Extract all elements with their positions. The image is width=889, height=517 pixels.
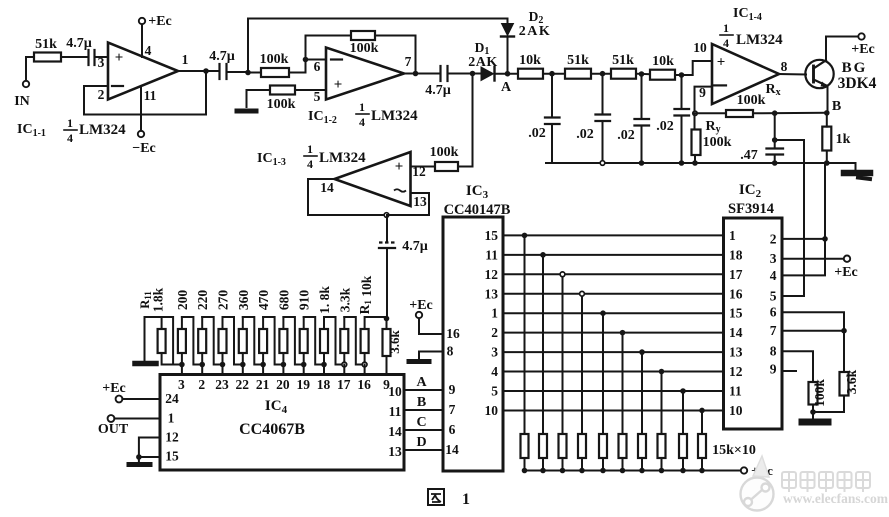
svg-text:11: 11: [389, 404, 402, 419]
label IC3: [466, 183, 489, 201]
IC2 pin 6 label: [770, 305, 777, 320]
wire resistor bottom stub: [323, 353, 325, 365]
resistor 100k (IC1-2 feedback): [350, 31, 379, 56]
open node on rail: [600, 161, 605, 166]
svg-text:3.6k: 3.6k: [387, 329, 402, 353]
wire 15k to rail 9: [682, 458, 684, 471]
wire to IC1-4 pin 10: [675, 61, 712, 75]
ground (IC4 pins 12/15): [129, 457, 150, 465]
power +Ec (IC2 pin 3): [834, 256, 858, 280]
resistor Rx 100k (feedback): [726, 93, 766, 117]
svg-text:13: 13: [485, 286, 499, 301]
wire D (IC4 pin 13 to IC3 pin 14): [404, 449, 443, 451]
node junction chain 2: [199, 362, 205, 368]
wire drop to 15k resistor 2: [542, 255, 544, 434]
IC2 pin 13 label: [729, 345, 743, 360]
wire: [543, 73, 565, 75]
capacitor 4.7u (input coupling): [66, 36, 94, 65]
svg-text:6: 6: [770, 305, 777, 320]
pin 1 label: [168, 411, 175, 426]
svg-text:1k: 1k: [836, 132, 851, 147]
net label B: [417, 395, 426, 410]
svg-text:5: 5: [314, 89, 321, 104]
wire drop to 15k resistor 6: [622, 333, 624, 434]
wire Ry top: [694, 113, 696, 129]
svg-text:2AK: 2AK: [519, 24, 552, 39]
label IC2: [739, 182, 762, 200]
svg-text:1: 1: [723, 21, 729, 35]
svg-text:1. 8k: 1. 8k: [317, 286, 332, 314]
resistor 200: [175, 290, 190, 353]
power +Ec (IC1-1 pin 4): [139, 14, 172, 57]
node (pin9/Rx/Ry): [693, 111, 697, 115]
pin 1 label: [182, 52, 189, 67]
wire B to 1k: [826, 113, 828, 127]
node junction (Rx/.47): [772, 110, 778, 116]
svg-text:100k: 100k: [703, 135, 732, 150]
wire .47 upper: [774, 113, 776, 147]
resistor 360: [236, 290, 251, 353]
svg-text:17: 17: [337, 377, 351, 392]
svg-text:100k: 100k: [430, 145, 459, 160]
wire drop to 15k resistor 3: [562, 274, 564, 434]
label 1/4 fraction (IC1-3): [304, 142, 317, 171]
rail junction 9: [680, 468, 686, 474]
label CC4067B: [239, 421, 305, 438]
input terminal IN: [14, 81, 30, 109]
resistor 15k (3): [559, 434, 567, 458]
wire bus 5 (IC3 pin 1 to IC2 pin 15): [503, 312, 724, 314]
IC2 pin 4 label: [770, 268, 777, 283]
ground (chain left end): [135, 361, 156, 367]
IC3 pin 1 label: [491, 306, 498, 321]
IC4 top pin number labels: [178, 377, 390, 392]
svg-text:−Ec: −Ec: [132, 141, 156, 156]
wire Rx right to node B: [753, 112, 827, 115]
svg-text:+: +: [395, 159, 404, 175]
svg-text:3.3k: 3.3k: [337, 287, 352, 312]
svg-text:7: 7: [449, 402, 456, 417]
IC3 pin 11 label: [485, 247, 498, 262]
pin 2 label: [98, 87, 105, 102]
svg-text:C: C: [416, 415, 426, 430]
wire resistor top stub: [343, 317, 345, 329]
wire Ry bottom: [694, 155, 696, 163]
wire drop to 15k resistor 10: [701, 410, 703, 434]
svg-text:BG: BG: [842, 60, 868, 76]
pin 12 label: [412, 164, 426, 179]
node junction bus 7: [639, 349, 645, 355]
power +Ec (IC4 pin 24): [102, 381, 160, 402]
svg-text:4: 4: [145, 43, 152, 58]
IC3 pin 2 label: [491, 325, 498, 340]
wire resistor bottom stub: [282, 353, 284, 365]
resistor 100k (IC1-2 inverting input): [260, 52, 289, 77]
label IC1-4: [733, 6, 762, 23]
wire feedback left leg: [306, 36, 352, 60]
svg-text:13: 13: [413, 194, 427, 209]
wire IC2 pin 7: [782, 330, 844, 332]
svg-text:51k: 51k: [35, 37, 57, 52]
svg-text:51k: 51k: [612, 53, 634, 68]
resistor 15k (4): [578, 434, 586, 458]
svg-text:18: 18: [729, 247, 743, 262]
resistor 51k (input): [34, 37, 61, 62]
svg-text:R1 10k: R1 10k: [357, 275, 374, 314]
node junction pin7/3.6k: [841, 328, 847, 334]
svg-text:3: 3: [98, 55, 105, 70]
svg-text:+Ec: +Ec: [409, 298, 433, 313]
power +Ec (IC3 pin 16): [409, 298, 443, 334]
svg-text:3: 3: [178, 377, 185, 392]
wire C (IC4 pin 14 to IC3 pin 6): [404, 429, 443, 431]
resistor 100k (IC1-2 pin 5): [267, 86, 296, 113]
svg-text:18: 18: [317, 377, 331, 392]
resistor 680: [276, 290, 291, 353]
svg-text:OUT: OUT: [98, 422, 129, 437]
resistor R1 10k: [357, 275, 374, 353]
wire node A up to D2: [507, 37, 509, 74]
ground (IC1-2 pin 5 divider): [237, 109, 256, 114]
wire node to IC4 pin: [201, 365, 203, 375]
svg-text:4: 4: [770, 268, 777, 283]
wire down to 100k (IC1-3 input): [472, 74, 474, 167]
wire chain jog: [223, 317, 243, 365]
label LM324 (IC1-4): [736, 32, 783, 48]
op-amp IC1-3 (1/4 LM324, mirrored): [335, 152, 411, 206]
svg-text:4.7µ: 4.7µ: [209, 49, 235, 64]
wire chain to ground: [145, 317, 162, 361]
svg-text:4: 4: [723, 36, 729, 50]
wire drop to 15k resistor 7: [641, 352, 643, 434]
IC2 pin 5 label: [770, 289, 777, 304]
IC3 pin 4 label: [491, 364, 498, 379]
svg-text:.02: .02: [656, 119, 674, 134]
wire chain jog: [243, 317, 263, 365]
power +Ec (collector): [851, 33, 875, 57]
IC3 pin 15 label: [485, 228, 499, 243]
svg-text:6: 6: [314, 59, 321, 74]
capacitor .02 (2): [576, 74, 610, 163]
wire 15k to rail 2: [542, 458, 544, 471]
node junction bus 9: [680, 388, 686, 394]
svg-text:LM324: LM324: [79, 122, 126, 138]
resistor 15k (2): [539, 434, 547, 458]
IC2 pin 11 label: [729, 384, 742, 399]
node junction chain 5: [260, 362, 266, 368]
wire drop to 15k resistor 9: [682, 391, 684, 434]
resistor 220: [195, 290, 210, 353]
IC2 pin 16 label: [729, 286, 743, 301]
svg-text:7: 7: [770, 323, 777, 338]
svg-text:19: 19: [296, 377, 310, 392]
svg-text:17: 17: [729, 267, 743, 282]
svg-text:3DK4: 3DK4: [838, 75, 877, 92]
rail junction 3: [560, 468, 566, 474]
svg-text:CC4067B: CC4067B: [239, 421, 305, 438]
resistor 15k (7): [638, 434, 646, 458]
svg-text:20: 20: [276, 377, 290, 392]
wire D1 to node A: [495, 73, 519, 75]
label IC1-2: [308, 109, 337, 126]
svg-text:9: 9: [770, 362, 777, 377]
svg-text:4: 4: [491, 364, 498, 379]
wire .47 lower: [774, 155, 776, 164]
resistor Ry 100k: [692, 119, 732, 155]
svg-text:+Ec: +Ec: [851, 42, 875, 57]
svg-text:270: 270: [216, 290, 231, 311]
IC3 pin 10 label: [485, 403, 499, 418]
node junction (to IC1-3 path): [470, 71, 476, 77]
wire resistor top stub: [262, 317, 264, 329]
label SF3914: [728, 201, 774, 217]
wire C to op-amp pin 3: [95, 56, 109, 58]
node junction (IC1-3 output): [384, 213, 389, 218]
svg-text:8: 8: [447, 344, 454, 359]
wire bus 8 (IC3 pin 4 to IC2 pin 12): [503, 371, 724, 373]
wire IC1-1 feedback loop: [84, 71, 206, 115]
rail junction 8: [659, 468, 665, 474]
wire R11 top: [161, 317, 163, 329]
wire IC2 pin 3 to +Ec: [782, 258, 844, 260]
IC3 pin 12 label: [485, 267, 499, 282]
svg-text:15: 15: [729, 306, 743, 321]
resistor 1. 8k: [317, 286, 332, 353]
open node chain (R1 bottom): [362, 362, 367, 367]
svg-text:15: 15: [485, 228, 499, 243]
wire 100k to ground: [812, 405, 814, 420]
svg-text:910: 910: [297, 290, 312, 311]
node junction chain 6: [281, 362, 287, 368]
svg-text:10k: 10k: [519, 53, 541, 68]
label LM324 (IC1-1): [79, 122, 126, 138]
resistor 3.6k (IC2 divider): [840, 369, 860, 395]
wire bus 2 (IC3 pin 11 to IC2 pin 18): [503, 254, 724, 256]
op-amp IC1-1 (1/4 LM324): [108, 43, 178, 100]
svg-text:10: 10: [729, 403, 743, 418]
wire resistor top stub: [242, 317, 244, 329]
wire pin 9 to Rx/Ry node: [695, 87, 713, 114]
wire resistor bottom stub: [222, 353, 224, 365]
wire node to 100k: [248, 72, 261, 74]
resistor 3.3k: [337, 287, 352, 353]
IC3 pin 7 label: [449, 402, 456, 417]
svg-text:+: +: [717, 55, 726, 71]
wire resistor bottom stub: [201, 353, 203, 365]
IC2 pin 17 label: [729, 267, 743, 282]
svg-text:16: 16: [729, 286, 743, 301]
wire resistor bottom stub: [242, 353, 244, 365]
svg-text:2: 2: [98, 87, 105, 102]
IC3 pin 6 label: [449, 422, 456, 437]
wire IC2 pin 8: [782, 351, 813, 382]
resistor 15k (9): [679, 434, 687, 458]
node junction chain 3: [220, 362, 226, 368]
wire IC1-3 unity feedback loop: [308, 179, 429, 215]
node junction IC1-2 output: [413, 71, 419, 77]
svg-text:+Ec: +Ec: [102, 381, 126, 396]
wire 51k to C 4.7u: [61, 56, 88, 58]
label IC1-1: [17, 122, 46, 139]
wire collector to +Ec: [826, 37, 858, 61]
node junction (ladder top rail): [384, 316, 390, 322]
svg-text:10k: 10k: [652, 54, 674, 69]
svg-text:4: 4: [307, 157, 313, 171]
wire 100k to pin 5: [295, 89, 326, 91]
svg-text:1: 1: [491, 306, 498, 321]
wire resistor bottom stub: [343, 353, 345, 365]
label LM324 (IC1-2): [371, 108, 418, 124]
svg-text:CC40147B: CC40147B: [444, 202, 511, 218]
pin 3 label: [98, 55, 105, 70]
watermark logo elecfans: [741, 456, 889, 511]
svg-text:LM324: LM324: [371, 108, 418, 124]
pin 7 label: [405, 54, 412, 69]
wire node to IC4 pin: [242, 365, 244, 375]
IC2 pin 2 label: [770, 231, 777, 246]
wire drop to 15k resistor 1: [524, 235, 526, 434]
svg-text:24: 24: [165, 391, 179, 406]
wire chain jog (3.3k top to R1 bottom): [344, 317, 364, 365]
wire node to IC4 pin: [181, 365, 183, 375]
wire node to IC4 pin: [343, 365, 345, 375]
svg-text:15k×10: 15k×10: [712, 443, 756, 458]
svg-text:8: 8: [781, 59, 788, 74]
wire resistor top stub: [303, 317, 305, 329]
wire resistor top stub: [323, 317, 325, 329]
resistor 15k (6): [619, 434, 627, 458]
resistor 910: [297, 290, 312, 353]
svg-text:10: 10: [485, 403, 499, 418]
open node bus 4: [580, 291, 585, 296]
svg-text:2: 2: [198, 377, 205, 392]
svg-text:9: 9: [449, 382, 456, 397]
wire feedback right leg: [375, 36, 416, 73]
pin 8 label: [781, 59, 788, 74]
svg-text:IN: IN: [14, 94, 30, 109]
wire node to IC4 pin: [303, 365, 305, 375]
svg-text:www.elecfans.com: www.elecfans.com: [783, 491, 889, 506]
IC2 pin 9 label: [770, 362, 777, 377]
power +Ec (15k rail): [741, 463, 773, 478]
label CC40147B: [444, 202, 511, 218]
rail junction 10: [699, 468, 705, 474]
rail junction 7: [639, 468, 645, 474]
wire chain jog: [304, 317, 324, 365]
open node bus 3: [560, 272, 565, 277]
wire IC2 pin 6: [782, 312, 844, 372]
diode D1 2AK: [468, 40, 498, 81]
net label C: [416, 415, 426, 430]
label Rx: [765, 82, 780, 98]
resistor 15k (10): [698, 434, 706, 458]
node junction bus 1: [522, 233, 528, 239]
svg-text:7: 7: [405, 54, 412, 69]
wire 100k to ground: [247, 90, 271, 107]
wire 15k to rail 10: [701, 458, 703, 471]
pin 15 label: [165, 449, 179, 464]
wire top rail to D2: [248, 18, 508, 20]
IC2 pin 8 label: [770, 344, 777, 359]
svg-text:100k: 100k: [260, 52, 289, 67]
IC4 pin 11 label: [389, 404, 402, 419]
IC2 pin 1 label: [729, 228, 736, 243]
capacitor 4.7u electrolytic: [379, 215, 428, 319]
svg-text:16: 16: [446, 326, 460, 341]
capacitor .02 (3): [617, 74, 649, 163]
IC3 pin 5 label: [491, 384, 498, 399]
wire rail node to 3.6k: [386, 319, 388, 330]
svg-text:4: 4: [67, 131, 73, 145]
open node chain 9: [342, 362, 347, 367]
pin 9 label: [699, 85, 706, 100]
svg-text:5: 5: [491, 384, 498, 399]
wire bus 9 (IC3 pin 5 to IC2 pin 11): [503, 390, 724, 392]
rail junction 1k: [824, 160, 830, 166]
capacitor 4.7u (stage 1-2 coupling): [209, 49, 235, 79]
wire IN to R 51k: [26, 57, 34, 81]
svg-text:11: 11: [485, 247, 498, 262]
ground (IC2 divider): [802, 419, 828, 426]
IC2 pin 3 label: [770, 251, 777, 266]
svg-text:12: 12: [485, 267, 499, 282]
wire IC4 pin 12 to pin 15: [139, 438, 160, 458]
wire 15k to rail 7: [641, 458, 643, 471]
wire 1k to rail: [826, 151, 828, 164]
svg-text:100k: 100k: [812, 379, 827, 407]
svg-text:1: 1: [729, 228, 736, 243]
wire R1 node to IC4 pin 16: [364, 365, 366, 375]
output terminal OUT: [98, 415, 160, 437]
wire 15k to rail 1: [524, 458, 526, 471]
label 15k x 10: [712, 443, 756, 458]
IC3 pin 14 label: [445, 442, 459, 457]
pin 13 label: [413, 194, 427, 209]
op-amp IC1-2 (1/4 LM324): [326, 48, 404, 100]
label BG 3DK4: [838, 60, 877, 92]
pin 24 label: [165, 391, 179, 406]
wire: [591, 73, 611, 75]
wire 3.6k to IC4 pin 9: [386, 356, 388, 375]
resistor 270: [216, 290, 231, 353]
ground (rail right end): [844, 163, 870, 179]
svg-text:470: 470: [256, 290, 271, 311]
svg-text:13: 13: [388, 444, 402, 459]
wire: [636, 73, 650, 76]
node junction (C2): [600, 71, 606, 77]
svg-text:5: 5: [770, 289, 777, 304]
svg-text:+Ec: +Ec: [834, 265, 858, 280]
svg-text:12: 12: [729, 364, 743, 379]
svg-text:3: 3: [491, 345, 498, 360]
svg-text:6: 6: [449, 422, 456, 437]
svg-text:.02: .02: [617, 128, 635, 143]
wire bus 1 (IC3 pin 15 to IC2 pin 1): [503, 234, 724, 236]
op-amp IC1-4 (1/4 LM324): [712, 44, 779, 104]
pin 16 label: [446, 326, 460, 341]
net label A: [416, 375, 427, 390]
svg-text:23: 23: [215, 377, 229, 392]
svg-text:A: A: [501, 80, 512, 95]
wire chain jog: [263, 317, 283, 365]
wire resistor top stub: [282, 317, 284, 329]
svg-text:LM324: LM324: [319, 150, 366, 166]
wire chain jog: [202, 317, 222, 365]
wire rail node down to IC2 pin2/pin4: [782, 163, 825, 275]
wire resistor top stub: [222, 317, 224, 329]
svg-text:11: 11: [144, 88, 157, 103]
label IC1-3: [257, 151, 286, 168]
